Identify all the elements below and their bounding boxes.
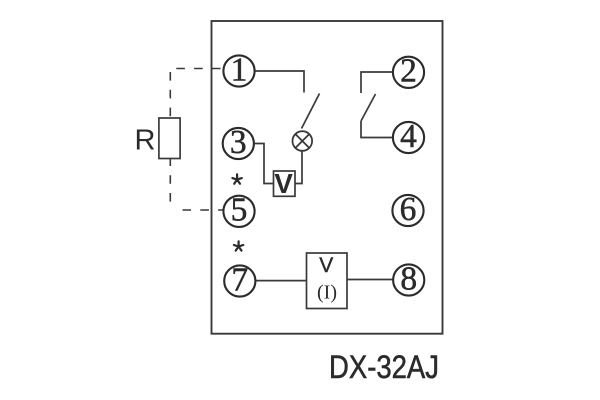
svg-text:DX-32AJ: DX-32AJ xyxy=(329,349,439,385)
svg-text:(I): (I) xyxy=(317,282,337,304)
svg-text:V: V xyxy=(319,254,333,277)
svg-text:7: 7 xyxy=(231,261,248,298)
svg-text:8: 8 xyxy=(400,260,417,297)
svg-text:3: 3 xyxy=(230,124,247,161)
svg-text:V: V xyxy=(274,168,293,199)
svg-text:5: 5 xyxy=(231,192,248,229)
svg-text:R: R xyxy=(135,125,156,157)
svg-text:4: 4 xyxy=(400,118,417,155)
svg-text:1: 1 xyxy=(231,51,248,88)
svg-text:2: 2 xyxy=(400,53,417,90)
svg-text:6: 6 xyxy=(400,191,417,228)
